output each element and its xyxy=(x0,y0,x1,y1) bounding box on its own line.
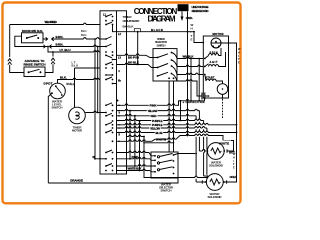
wire bundle vertical 139 xyxy=(139,120,141,171)
wire vertical I xyxy=(198,59,200,101)
svg-text:MOTOR: MOTOR xyxy=(72,129,83,133)
label white near solenoid xyxy=(217,140,231,145)
svg-text:SWITCH: SWITCH xyxy=(157,43,166,47)
border frame xyxy=(3,3,241,204)
svg-text:BRN.: BRN. xyxy=(56,43,64,47)
line voltage service cord plug xyxy=(178,4,210,13)
svg-text:YELLOW: YELLOW xyxy=(148,109,158,113)
title CONNECTION DIAGRAM xyxy=(134,7,178,24)
wire orange bottom xyxy=(48,178,178,183)
wire left riser to rinse switch with connector chevrons xyxy=(8,25,24,73)
wire black timer L2 to junction xyxy=(117,28,195,33)
wire purple fan 1 xyxy=(117,119,209,177)
wire door switch loop xyxy=(15,36,48,46)
svg-text:DOOR SW. N.O.: DOOR SW. N.O. xyxy=(22,29,43,33)
motor start relay circle xyxy=(217,84,228,99)
wire riser to rinse switch right with chevrons xyxy=(45,52,55,73)
wire timer to water selector e4 white-blk xyxy=(117,167,156,172)
motor start winding xyxy=(204,74,223,84)
wire cord to motor J terminal xyxy=(202,42,204,44)
wire stub row to selector vertical xyxy=(143,141,174,143)
wire tap black to bk-blk xyxy=(137,31,139,66)
wire black from cord to motor xyxy=(194,32,203,43)
timer box xyxy=(100,11,127,174)
svg-text:+ CAPACITOR: + CAPACITOR xyxy=(183,100,205,104)
wire hot solenoid feed xyxy=(187,32,189,137)
timer motor xyxy=(69,107,86,132)
motor spin winding xyxy=(204,48,221,59)
wire tap pink to purple xyxy=(180,101,182,122)
svg-text:YELLOW-RED: YELLOW-RED xyxy=(44,20,57,24)
wire bundle vertical 144 to lower feed xyxy=(144,137,207,178)
svg-text:COOL/PUSH OFF: COOL/PUSH OFF xyxy=(123,19,140,23)
label blu connector pair xyxy=(81,30,87,37)
svg-text:DPDT: DPDT xyxy=(44,82,53,86)
svg-text:RED: RED xyxy=(151,114,157,118)
svg-text:WH-BLK: WH-BLK xyxy=(183,54,195,58)
door switch DOOR SW. N.O. xyxy=(22,29,44,43)
svg-text:ORANGE: ORANGE xyxy=(70,179,83,183)
wire light blue to timer xyxy=(47,46,100,53)
svg-text:PINK: PINK xyxy=(132,155,140,159)
motor box xyxy=(203,32,228,98)
wire speed switch to selector vertical 1 xyxy=(168,81,170,152)
motor centrifugal switch xyxy=(211,38,221,48)
timer contacts upper xyxy=(103,13,122,113)
vertical white label right lower xyxy=(233,153,236,170)
wire brown upper with connectors xyxy=(43,35,106,41)
svg-text:PINK: PINK xyxy=(150,104,158,108)
wire timer to water selector e3 xyxy=(117,165,156,166)
wire yellow fan xyxy=(117,109,208,151)
wire yellow-red xyxy=(10,20,100,24)
wire yellow fan 2 xyxy=(117,126,208,178)
timer contacts fan rows xyxy=(105,100,120,143)
svg-text:M: M xyxy=(93,156,95,159)
wire blue fan xyxy=(117,131,238,135)
svg-text:BLUE: BLUE xyxy=(156,131,163,135)
wire bk-blk timer to speed switch xyxy=(117,61,158,68)
label timer cool/push off xyxy=(123,15,140,29)
water level switch DPDT xyxy=(44,82,75,110)
wire white fan xyxy=(117,134,234,151)
svg-text:SWITCH: SWITCH xyxy=(52,106,63,110)
wire vertical A xyxy=(94,38,100,160)
capacitor xyxy=(183,93,210,105)
svg-text:SOLENOID: SOLENOID xyxy=(208,195,222,199)
wire bundle vertical 135 xyxy=(134,115,136,167)
wire brown lower with connectors xyxy=(43,43,106,49)
wire lt blue 2 timer motor branch xyxy=(72,61,101,108)
svg-text:BLU: BLU xyxy=(72,64,79,68)
wire speed switch to motor 3 xyxy=(177,73,203,74)
svg-text:BRN.: BRN. xyxy=(56,35,64,39)
advance to rinse switch xyxy=(24,59,46,77)
wire water selector right exit xyxy=(174,154,196,156)
svg-text:BLU.: BLU. xyxy=(81,30,87,33)
wire timer to water selector e1 xyxy=(117,151,156,156)
svg-text:RINSE SWITCH: RINSE SWITCH xyxy=(24,63,46,67)
wire wh-blk speed switch to motor 1 xyxy=(177,54,203,59)
motor agitate winding xyxy=(204,52,226,67)
wire speed switch to motor 2 xyxy=(177,65,203,67)
svg-text:BLU.: BLU. xyxy=(81,34,87,37)
timer contacts lower xyxy=(93,150,114,171)
wire vertical H xyxy=(190,59,192,101)
speed selector switch box xyxy=(153,37,177,81)
wire timer to water selector e2 pink xyxy=(117,155,156,160)
svg-text:SPIN: SPIN xyxy=(210,52,218,55)
svg-text:BK-BLK: BK-BLK xyxy=(123,25,135,29)
wire white from service cord down xyxy=(188,11,194,41)
svg-text:SWITCH: SWITCH xyxy=(161,189,172,193)
wire stub to bundle xyxy=(127,135,145,137)
ground symbol GND xyxy=(181,11,193,21)
svg-text:FULL: FULL xyxy=(67,82,75,86)
svg-text:GND.: GND. xyxy=(186,16,193,20)
wire black water level to timer xyxy=(58,75,101,83)
wire pink fan xyxy=(117,98,205,108)
svg-text:9b: 9b xyxy=(118,80,121,83)
wire vertical B xyxy=(97,46,99,113)
water selector switch box xyxy=(151,152,178,193)
svg-text:COLD: COLD xyxy=(230,175,237,179)
wire speed switch to capacitor xyxy=(177,80,202,96)
wire speed switch to selector vertical 2 xyxy=(173,81,175,152)
svg-text:SERVICE CORD: SERVICE CORD xyxy=(192,9,210,13)
svg-text:DIAGRAM: DIAGRAM xyxy=(148,14,176,23)
svg-text:SOLENOID: SOLENOID xyxy=(209,164,223,168)
wire water level to orange xyxy=(48,93,52,183)
dashed link motor to solenoid xyxy=(222,99,224,118)
svg-text:BLK.: BLK. xyxy=(60,75,67,79)
wire white rail right xyxy=(221,43,241,182)
svg-text:LT. BLU: LT. BLU xyxy=(60,48,71,52)
svg-text:YELLOW: YELLOW xyxy=(150,126,160,130)
wire bundle vertical 130 xyxy=(129,110,131,160)
svg-text:AGIT: AGIT xyxy=(210,61,218,64)
cold water solenoid xyxy=(202,174,236,199)
hot water solenoid xyxy=(205,143,236,168)
svg-text:WHITE-BLK: WHITE-BLK xyxy=(128,167,143,171)
svg-text:MOTOR: MOTOR xyxy=(213,32,224,36)
svg-text:E: E xyxy=(191,37,193,41)
wire bk-pur timer to speed switch xyxy=(117,54,158,60)
wire purple fan 2 xyxy=(117,123,238,127)
svg-text:BLACK: BLACK xyxy=(151,28,163,32)
wire red fan xyxy=(117,114,206,182)
svg-text:WHITE: WHITE xyxy=(156,137,166,141)
wire timer motor to timer xyxy=(85,111,106,113)
